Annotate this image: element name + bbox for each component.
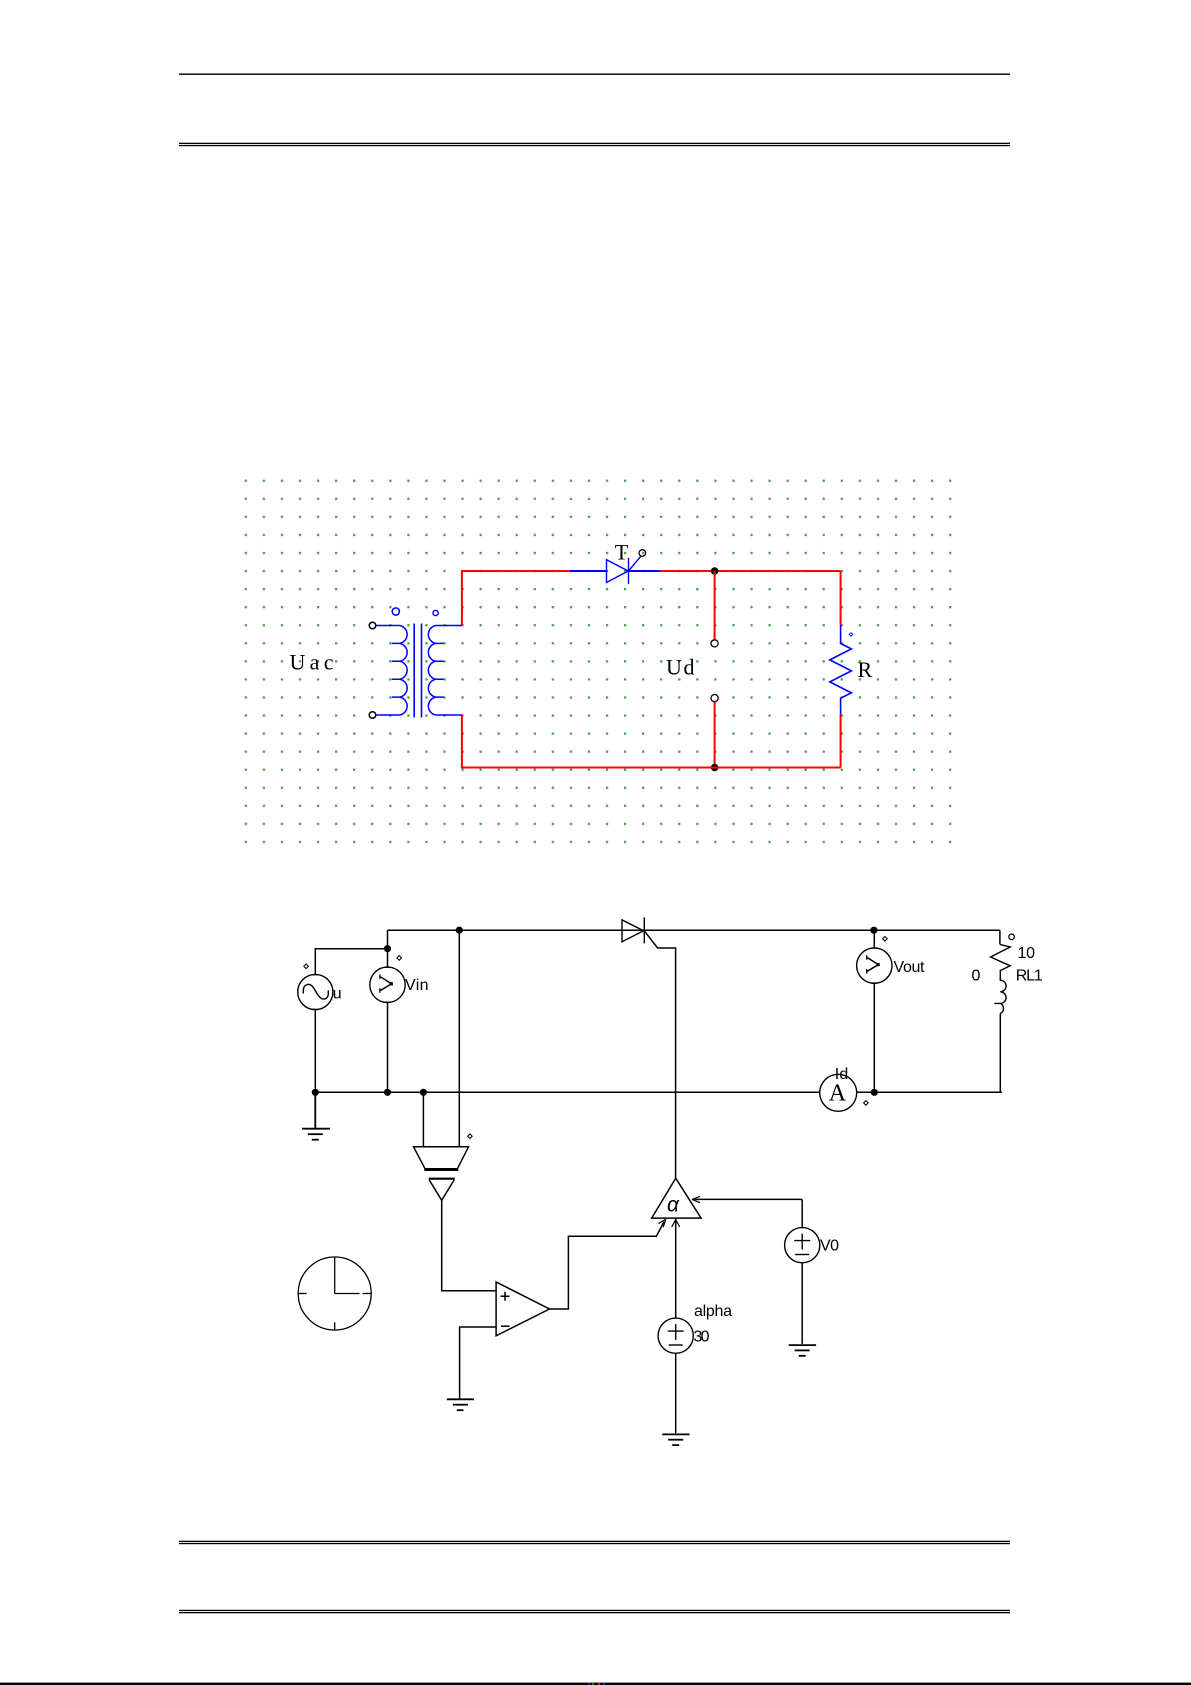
wire: top rail red left segment <box>462 571 570 626</box>
AC source sine glyph <box>303 984 328 999</box>
svg-text:α: α <box>667 1194 680 1217</box>
ammeter A circle <box>820 1074 857 1111</box>
node junction top (Ud tap) <box>711 567 719 575</box>
thyristor T body <box>607 556 642 584</box>
wire: top rail red right segment <box>660 570 841 572</box>
svg-text:V0: V0 <box>820 1238 839 1255</box>
buffer (potential transformer) trapezoid <box>414 1147 469 1170</box>
wire: Ud upper red drop <box>714 571 716 640</box>
wire: thyristor gate run <box>644 931 675 1178</box>
schematic 1 grid background <box>244 479 952 845</box>
node Ud upper terminal circle <box>711 640 718 647</box>
wire: V0 to ground <box>801 1263 803 1344</box>
transformer core <box>414 624 421 718</box>
voltmeter Vin pin marker <box>397 956 402 961</box>
op-amp minus sign <box>501 1325 510 1327</box>
wire: blue cathode lead of thyristor T <box>629 570 660 572</box>
ground under V0 <box>789 1345 816 1356</box>
svg-text:0: 0 <box>972 968 981 985</box>
svg-text:T: T <box>615 540 629 565</box>
header double rule <box>179 143 1010 147</box>
op-amp comparator triangle <box>496 1282 549 1336</box>
wire: AC source bottom drop <box>314 1010 316 1093</box>
source V0 circle <box>785 1228 820 1263</box>
node Ud lower terminal circle <box>711 695 718 702</box>
svg-text:Uac: Uac <box>290 650 334 675</box>
svg-text:u: u <box>333 985 342 1002</box>
transformer primary polarity dot <box>392 608 399 615</box>
op-amp plus sign <box>501 1292 510 1301</box>
wire: V0 top drop <box>801 1199 803 1227</box>
footer double rule lower <box>179 1610 1010 1614</box>
alpha firing block triangle <box>652 1178 701 1218</box>
voltmeter Vin pointer glyph <box>380 975 392 993</box>
wire: Vin bottom drop <box>387 1003 389 1093</box>
node junction top rail at Vin <box>384 945 391 952</box>
buffer output triangle <box>429 1179 455 1201</box>
ground under alpha30 <box>662 1434 689 1445</box>
voltmeter Vout pointer glyph <box>867 955 879 973</box>
wire: blue anode lead of thyristor T <box>570 570 607 572</box>
resistor-inductor RL1 body <box>991 944 1011 1013</box>
node junction top rail buffer feed <box>456 927 463 934</box>
node junction bottom rail AC <box>312 1089 319 1096</box>
AC source pin marker <box>304 964 309 969</box>
voltmeter Vout pin marker <box>883 937 888 942</box>
wire: red drop to resistor R top <box>840 571 842 625</box>
ground under AC source <box>302 1092 330 1139</box>
header rule top <box>179 74 1010 75</box>
wire: top rail <box>388 929 1000 931</box>
wire: bottom rail red <box>462 715 841 768</box>
svg-text:30: 30 <box>694 1328 710 1345</box>
svg-text:A: A <box>829 1081 847 1107</box>
wire: bottom rail right of ammeter <box>857 1091 1002 1093</box>
voltmeter Vout circle <box>857 948 892 983</box>
transformer primary terminal upper <box>369 622 376 629</box>
wire: Vin top drop <box>387 930 389 967</box>
wire: op-amp inverting input to ground <box>460 1327 497 1398</box>
source alpha 30 circle <box>658 1318 693 1353</box>
arrowhead op-amp feed <box>659 1219 666 1227</box>
wire: AC source top link <box>315 949 387 975</box>
buffer pin marker diamond <box>468 1134 473 1139</box>
node junction top rail Vout <box>870 927 877 934</box>
resistor R body <box>830 625 852 715</box>
node junction bottom rail Vin <box>384 1089 391 1096</box>
wire: op-amp output to alpha block <box>550 1222 664 1309</box>
wire: alpha30 source to alpha block <box>675 1218 677 1318</box>
wire: V0 link to alpha block <box>695 1198 803 1200</box>
footer double rule upper <box>179 1541 1010 1545</box>
resistor R pin marker diamond <box>849 633 853 637</box>
wire: Vout bottom drop <box>873 983 875 1092</box>
wire: red from resistor R bottom <box>840 715 842 768</box>
thyristor T gate terminal circle <box>639 550 646 557</box>
transformer secondary winding <box>428 626 462 716</box>
thyristor D1 triangle <box>622 917 644 943</box>
svg-text:Vin: Vin <box>405 977 429 994</box>
wire: buffer input drop <box>422 1092 424 1146</box>
wire: buffer output to op-amp <box>442 1200 496 1291</box>
wire: vertical feed to buffer <box>458 930 460 1146</box>
wire: bottom rail left of ammeter <box>315 1091 819 1093</box>
svg-text:Id: Id <box>835 1066 849 1083</box>
transformer primary winding <box>376 626 407 716</box>
arrowhead V0 feed <box>692 1196 700 1202</box>
svg-text:10: 10 <box>1018 945 1036 962</box>
voltmeter Vin circle <box>370 967 405 1002</box>
transformer primary terminal lower <box>369 712 376 719</box>
page bottom edge bar <box>0 1683 1191 1685</box>
RL1 pin circle marker <box>1009 934 1015 940</box>
wire: Ud lower red drop <box>714 702 716 768</box>
transformer secondary polarity dot <box>433 610 438 615</box>
wire: RL1 branch down and bottom corner <box>999 930 1001 1092</box>
node junction bottom (Ud tap) <box>711 764 719 772</box>
wire: alpha30 to ground <box>675 1353 677 1433</box>
svg-text:alpha: alpha <box>694 1303 732 1320</box>
svg-text:Ud: Ud <box>666 654 695 679</box>
svg-text:Vout: Vout <box>894 959 926 976</box>
ground under op-amp <box>447 1399 474 1410</box>
clock symbol <box>298 1257 371 1330</box>
wire: Vout top drop <box>873 930 875 948</box>
ammeter pin marker <box>864 1101 869 1106</box>
AC source u circle <box>298 974 333 1009</box>
node junction bottom rail buffer <box>420 1089 427 1096</box>
svg-text:RL1: RL1 <box>1016 968 1043 985</box>
svg-text:R: R <box>858 657 873 682</box>
arrowhead alpha30 feed <box>672 1220 680 1228</box>
node junction bottom rail Vout <box>871 1089 878 1096</box>
